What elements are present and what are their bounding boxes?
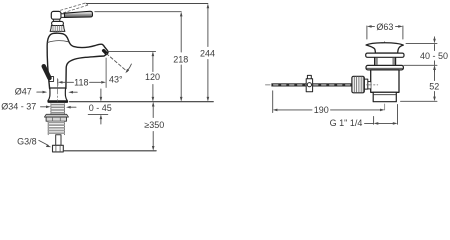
dim >=350 xyxy=(152,104,154,148)
faucet body and spout xyxy=(47,33,108,88)
svg-text:G 1" 1/4: G 1" 1/4 xyxy=(330,118,363,128)
aerator tip xyxy=(101,48,108,55)
dim 218 xyxy=(95,11,181,13)
svg-text:40 - 50: 40 - 50 xyxy=(420,51,448,61)
svg-text:118: 118 xyxy=(74,78,88,88)
svg-text:190: 190 xyxy=(314,105,329,115)
dim 120 xyxy=(107,50,155,52)
svg-text:43°: 43° xyxy=(109,74,123,84)
svg-text:120: 120 xyxy=(145,72,160,82)
dim 40-50 xyxy=(404,43,437,65)
svg-text:52: 52 xyxy=(429,81,439,91)
collar xyxy=(52,21,64,25)
flange band xyxy=(47,101,68,103)
dim 118 xyxy=(57,80,59,86)
washer xyxy=(44,114,68,117)
rod centerline xyxy=(265,84,377,86)
threads upper xyxy=(51,103,65,114)
dim 190 xyxy=(272,91,274,113)
drain body xyxy=(371,70,399,92)
counter line xyxy=(70,101,214,103)
horizontal rod xyxy=(271,83,351,86)
supply tube xyxy=(56,135,61,146)
mounting nut xyxy=(46,117,66,121)
svg-text:244: 244 xyxy=(200,48,215,58)
bell base xyxy=(48,88,68,101)
svg-text:0 - 45: 0 - 45 xyxy=(89,103,112,113)
svg-text:Ø47: Ø47 xyxy=(15,87,32,97)
pivot nut xyxy=(364,79,368,89)
ring 1 xyxy=(366,53,404,57)
handle raised dashed position xyxy=(61,3,89,13)
dome cap xyxy=(366,43,403,53)
rod clamp xyxy=(307,75,311,78)
dim G 1" 1/4 xyxy=(374,105,398,125)
cap stem xyxy=(53,19,59,21)
svg-text:G3/8: G3/8 xyxy=(17,136,37,146)
43 degree arc arrow xyxy=(128,64,132,70)
threads lower xyxy=(48,121,64,135)
svg-text:≥350: ≥350 xyxy=(144,120,164,130)
handle neck xyxy=(61,14,65,18)
spout tip extension line xyxy=(105,58,107,88)
dim 52 xyxy=(434,68,436,99)
dim dia63 xyxy=(367,26,403,39)
43 degree dashed line xyxy=(106,54,127,72)
port tube xyxy=(367,82,371,89)
faucet centerline xyxy=(57,79,59,102)
svg-text:218: 218 xyxy=(173,54,188,64)
tailpiece xyxy=(373,92,396,101)
drain pull lever xyxy=(49,77,53,82)
handle cap xyxy=(51,11,61,19)
svg-text:Ø34 - 37: Ø34 - 37 xyxy=(1,102,36,112)
ring 2 xyxy=(366,65,403,70)
svg-text:Ø63: Ø63 xyxy=(376,22,393,32)
dim 0-45 xyxy=(100,89,102,99)
dim 244 xyxy=(87,3,208,5)
floor line xyxy=(64,150,156,152)
lever handle xyxy=(65,11,93,17)
neck between rings xyxy=(375,57,396,65)
drain centerline xyxy=(384,42,386,112)
knurled bonnet xyxy=(50,26,65,32)
shoulder seam xyxy=(48,41,69,43)
G3/8 hex end xyxy=(53,145,64,152)
